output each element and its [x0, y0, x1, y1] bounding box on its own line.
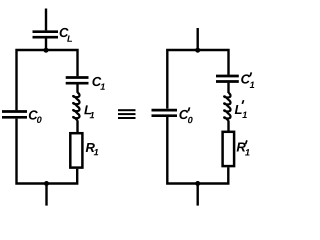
- wire: L1 to R1: [76, 120, 78, 132]
- wire: left circuit top-left outline (left rail top + top rail + C1 branch drop): [17, 50, 78, 110]
- label C1': [241, 74, 250, 83]
- wire: left circuit bottom outline (left rail bottom + bottom rail + R1 bottom lead): [17, 119, 78, 184]
- capacitor C1': [216, 76, 239, 82]
- wire: L1' to R1': [227, 121, 229, 131]
- label R1: [86, 143, 95, 152]
- label C1: [92, 77, 101, 86]
- node: junction dot bottom right: [195, 181, 200, 186]
- label L1: [84, 105, 91, 114]
- capacitor C0: [2, 112, 27, 118]
- wire: C1 to L1: [76, 84, 78, 92]
- node: junction dot bottom left: [44, 181, 49, 186]
- node: junction dot top right: [195, 48, 200, 53]
- wire: right circuit top outline (left rail top + top rail + C1' branch drop): [167, 50, 228, 109]
- capacitor C1: [66, 78, 89, 84]
- resistor R1': [223, 132, 235, 166]
- inductor L1: [73, 93, 79, 121]
- node: junction dot top left: [44, 48, 49, 53]
- label L1': [235, 105, 242, 114]
- equivalence sign: [118, 109, 136, 119]
- wire: right circuit bottom outline (left rail bottom + bottom rail + R1' bottom lead): [167, 117, 228, 184]
- wire: top terminal stub above CL: [45, 9, 47, 31]
- label C0': [179, 110, 188, 119]
- resistor R1: [70, 133, 82, 167]
- capacitor CL: [33, 32, 59, 38]
- inductor L1': [224, 93, 230, 121]
- wire: CL to top rail: [45, 38, 47, 50]
- wire: bottom terminal stub left: [45, 184, 47, 206]
- label CL: [60, 28, 69, 37]
- label C0: [29, 110, 38, 119]
- wire: C1' to L1': [227, 83, 229, 93]
- capacitor C0': [152, 110, 178, 116]
- label R1': [237, 143, 246, 152]
- wire: bottom terminal stub right: [196, 184, 198, 206]
- wire: top terminal stub right: [196, 28, 198, 50]
